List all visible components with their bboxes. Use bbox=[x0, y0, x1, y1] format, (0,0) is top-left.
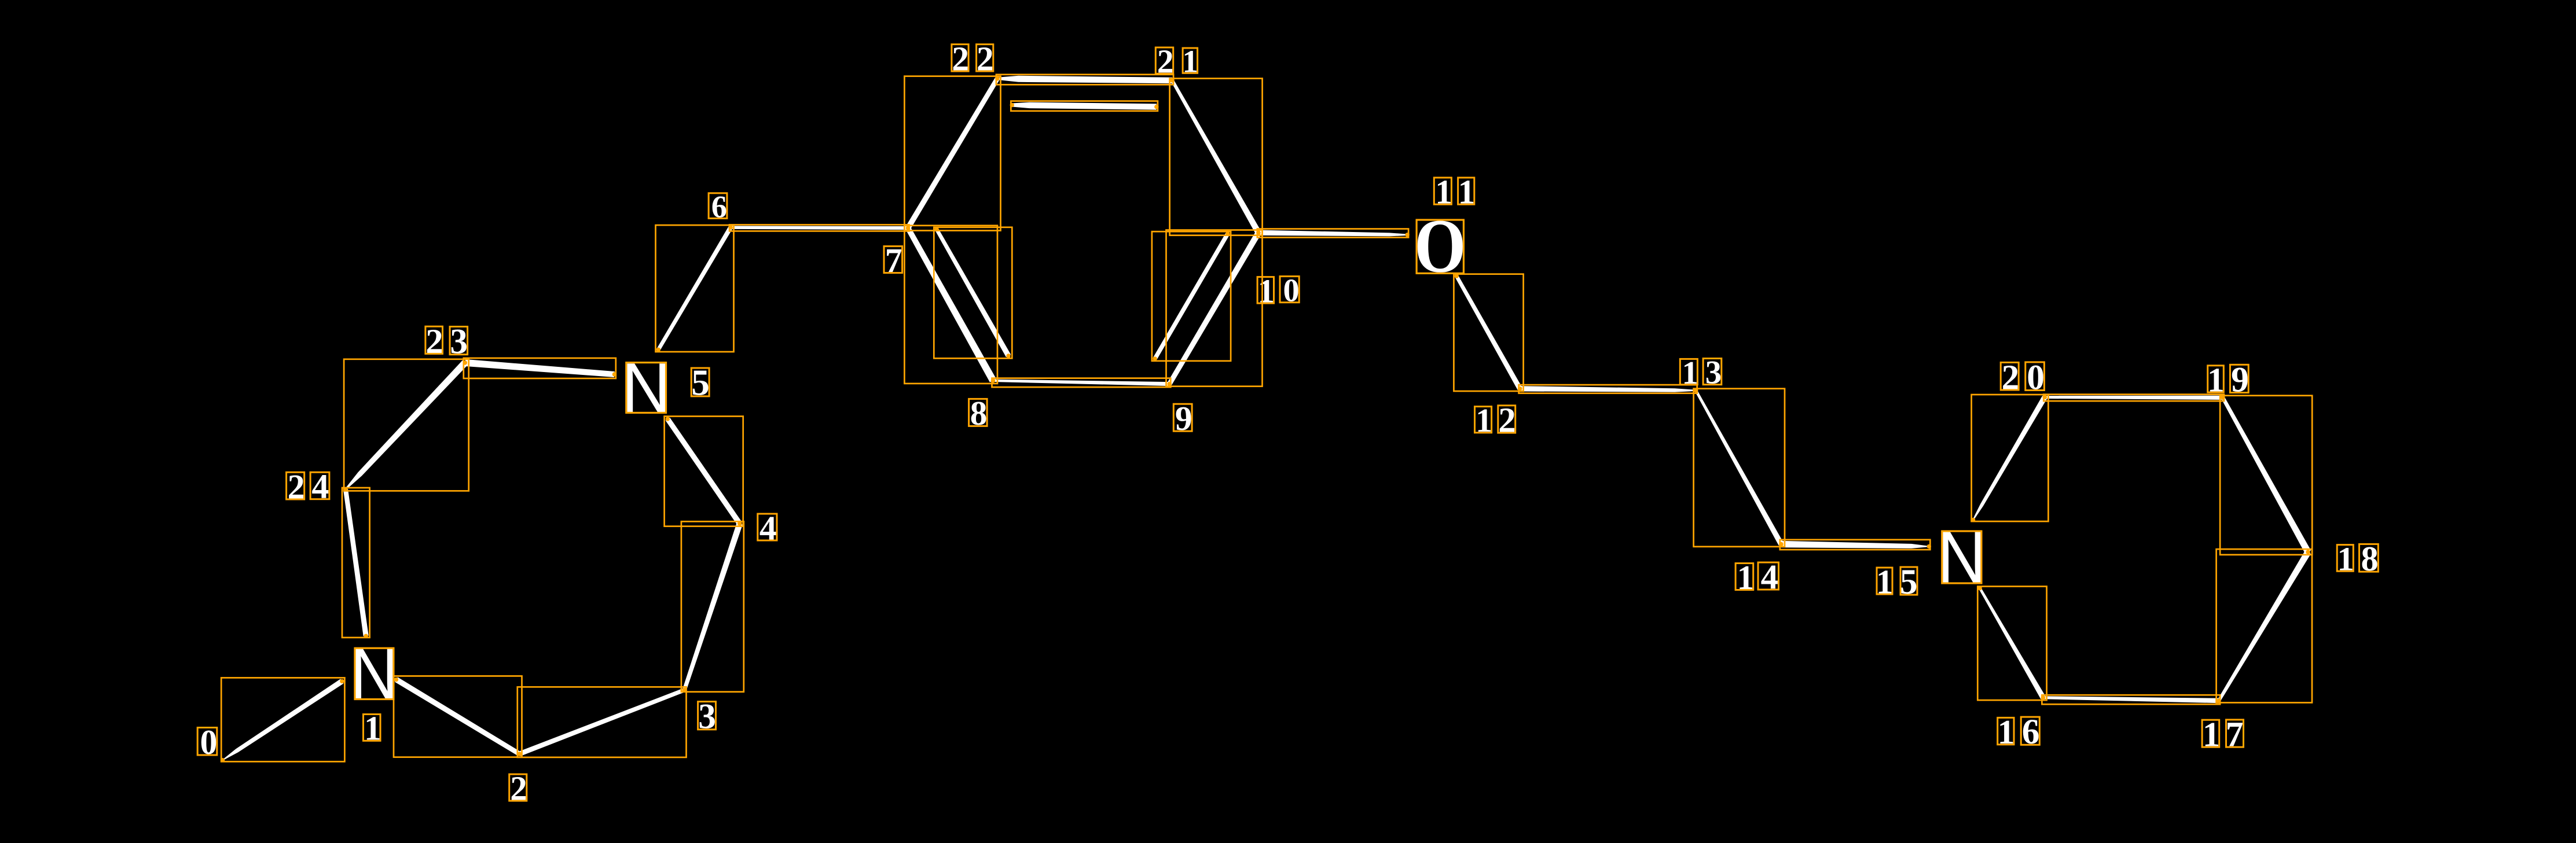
endpoint dots of bond 5-23 bbox=[612, 372, 617, 376]
atom 24 index label bbox=[285, 465, 329, 506]
endpoint dots of bond 13-14 bbox=[1694, 388, 1698, 392]
box of bond 7-8 main bbox=[904, 226, 997, 384]
bond 1-2 bbox=[395, 677, 521, 756]
svg-text:2: 2 bbox=[510, 770, 527, 808]
svg-text:3: 3 bbox=[450, 322, 468, 362]
box of atom 2 label digit 2 bbox=[509, 774, 527, 801]
bond 18-19 bbox=[2221, 397, 2311, 554]
bond 12-13 bbox=[1520, 386, 1696, 392]
box of bond 0-1 bbox=[221, 678, 344, 761]
svg-text:2: 2 bbox=[1498, 402, 1515, 440]
box of bond 16-17 bbox=[2042, 695, 2220, 704]
box of atom 22 label digit 2 bbox=[952, 45, 968, 72]
box of atom 19 label digit 1 bbox=[2208, 366, 2224, 392]
endpoint dots of bond 14-15 bbox=[1779, 542, 1783, 546]
box of atom 5 label digit 5 bbox=[691, 368, 709, 396]
atom 22 index label bbox=[950, 38, 994, 78]
box of atom 17 label digit 1 bbox=[2202, 720, 2219, 747]
endpoint dots of bond 4-5 bbox=[737, 521, 742, 525]
box of bond 10-21 bbox=[1170, 79, 1263, 235]
svg-text:1: 1 bbox=[364, 710, 381, 748]
bond 20-15 bbox=[1973, 396, 2047, 520]
endpoint dots of bond 10-11 bbox=[1256, 231, 1260, 235]
box of atom 15 label digit 1 bbox=[1877, 568, 1892, 594]
box of atom 1 label digit 1 bbox=[364, 715, 381, 741]
box of bond 23-24 bbox=[344, 359, 469, 491]
bond 17-18 bbox=[2218, 550, 2311, 701]
endpoint dots of bond 12-13 bbox=[1518, 386, 1522, 391]
bond 15-16 bbox=[1979, 588, 2045, 700]
endpoint dots of bond 21-22 main bbox=[1170, 78, 1174, 82]
box of bond 21-22 inner bbox=[1011, 101, 1158, 111]
box of atom 17 label digit 7 bbox=[2226, 720, 2244, 747]
box of bond 1-2 bbox=[394, 676, 522, 757]
box of atom 19 label digit 9 bbox=[2230, 365, 2248, 392]
box of bond 7-8 inner bbox=[934, 227, 1012, 359]
box of atom 6 label digit 6 bbox=[709, 193, 727, 219]
bond 9-10 main bbox=[1168, 231, 1261, 385]
atom 23 index label bbox=[424, 320, 468, 362]
box of atom 3 label digit 3 bbox=[698, 702, 716, 730]
box of atom 22 label digit 2 bbox=[977, 45, 993, 72]
atom N5 (ring nitrogen) bbox=[622, 349, 671, 427]
svg-text:7: 7 bbox=[2226, 715, 2244, 754]
box of atom 4 label digit 4 bbox=[758, 514, 777, 540]
endpoint dots of bond 20-15 bbox=[2043, 395, 2047, 399]
box of bond 13-14 bbox=[1694, 389, 1785, 547]
box of bond 8-9 bbox=[992, 378, 1171, 388]
box of atom N15 (piperidine nitrogen) bbox=[1942, 531, 1981, 583]
bond 11-12 bbox=[1455, 275, 1522, 390]
atom 8 index label bbox=[968, 392, 988, 432]
bond 21-22 inner bbox=[1012, 102, 1157, 110]
box of atom 24 label digit 4 bbox=[310, 472, 329, 499]
box of atom 24 label digit 2 bbox=[287, 472, 304, 499]
box of atom 14 label digit 1 bbox=[1735, 564, 1753, 590]
endpoint dots of bond 23-24 bbox=[463, 360, 467, 365]
atom 21 index label bbox=[1155, 41, 1198, 80]
box of atom 18 label digit 1 bbox=[2337, 545, 2353, 572]
box of atom 13 label digit 3 bbox=[1703, 359, 1722, 385]
box of atom 12 label digit 1 bbox=[1475, 407, 1492, 433]
atom 19 index label bbox=[2206, 358, 2249, 400]
box of bond 3-4 bbox=[681, 521, 744, 691]
box of bond 12-13 bbox=[1519, 385, 1697, 393]
box of atom 15 label digit 5 bbox=[1900, 567, 1917, 595]
bond 23-24 bbox=[345, 360, 468, 490]
box of bond 17-18 bbox=[2217, 549, 2312, 702]
box of bond 19-20 bbox=[2043, 395, 2224, 402]
bond 6-7 bbox=[731, 226, 908, 230]
svg-text:0: 0 bbox=[2027, 358, 2045, 397]
endpoint dots of bond 15-16 bbox=[1978, 586, 1982, 590]
endpoint dots of bond 9-10 inner bbox=[1153, 356, 1157, 360]
bond 14-15 bbox=[1781, 541, 1929, 548]
box of atom N1 (ring nitrogen) bbox=[355, 648, 394, 699]
box of atom 8 label digit 8 bbox=[969, 399, 988, 426]
atom 1 index label bbox=[362, 708, 381, 748]
atom 3 index label bbox=[696, 695, 716, 737]
bond 22-7 bbox=[905, 78, 999, 230]
bond 13-14 bbox=[1695, 390, 1784, 546]
endpoint dots of bond 7-8 main bbox=[906, 226, 910, 230]
endpoint dots of bond 24-1 bbox=[343, 487, 347, 491]
box of atom 21 label digit 1 bbox=[1183, 48, 1198, 73]
atom 10 index label bbox=[1256, 270, 1300, 310]
svg-text:8: 8 bbox=[2361, 540, 2379, 579]
endpoint dots of bond 2-3 bbox=[518, 752, 522, 756]
box of bond 6-7 bbox=[729, 224, 909, 231]
atom 13 index label bbox=[1680, 352, 1722, 391]
box of bond 15-16 bbox=[1977, 587, 2046, 701]
svg-text:9: 9 bbox=[2231, 360, 2249, 399]
box of bond 9-10 inner bbox=[1152, 231, 1231, 361]
box of bond 5-23 bbox=[464, 358, 616, 378]
svg-text:N: N bbox=[622, 349, 671, 427]
bond 2-3 bbox=[519, 688, 685, 756]
atom 14 index label bbox=[1735, 556, 1778, 597]
svg-text:2: 2 bbox=[2002, 358, 2020, 397]
endpoint dots of bond 10-21 bbox=[1256, 231, 1260, 235]
bond 10-11 bbox=[1258, 230, 1407, 237]
atom 12 index label bbox=[1474, 399, 1516, 440]
svg-text:3: 3 bbox=[698, 697, 716, 737]
bond 19-20 bbox=[2045, 396, 2223, 400]
atom 4 index label bbox=[758, 507, 777, 547]
box of atom 11 label digit 1 bbox=[1458, 178, 1474, 204]
bond 0-1 bbox=[222, 679, 343, 760]
svg-text:0: 0 bbox=[1283, 273, 1300, 309]
box of atom 16 label digit 1 bbox=[1998, 717, 2014, 744]
endpoint dots of bond 19-20 bbox=[2221, 396, 2225, 400]
endpoint dots of bond 21-22 inner bbox=[1154, 105, 1158, 109]
endpoint dots of bond 5-6 bbox=[656, 348, 660, 352]
endpoint dots of bond 3-4 bbox=[682, 688, 687, 692]
box of bond 11-12 bbox=[1454, 274, 1523, 391]
endpoint dots of bond 8-9 bbox=[991, 378, 995, 382]
box of bond 24-1 bbox=[342, 488, 370, 638]
svg-text:6: 6 bbox=[2022, 712, 2040, 752]
endpoint dots of bond 22-7 bbox=[995, 76, 999, 80]
box of bond 5-6 bbox=[656, 225, 734, 352]
atom 5 index label bbox=[689, 360, 710, 403]
svg-text:1: 1 bbox=[2203, 716, 2220, 754]
atom 16 index label bbox=[1995, 710, 2039, 752]
box of atom 16 label digit 6 bbox=[2021, 717, 2039, 745]
svg-text:N: N bbox=[350, 634, 398, 714]
endpoint dots of bond 17-18 bbox=[2217, 698, 2221, 702]
atom 7 index label bbox=[883, 239, 902, 279]
svg-text:1: 1 bbox=[1258, 273, 1275, 310]
box of atom 18 label digit 8 bbox=[2360, 544, 2379, 572]
box of atom 10 label digit 0 bbox=[1280, 277, 1299, 303]
endpoint dots of bond 1-2 bbox=[394, 678, 398, 682]
box of atom 23 label digit 2 bbox=[425, 326, 443, 354]
svg-text:1: 1 bbox=[2338, 540, 2354, 578]
box of atom 0 label digit 0 bbox=[197, 728, 217, 756]
bond 21-22 main bbox=[997, 76, 1172, 83]
endpoint dots of bond 16-17 bbox=[2041, 695, 2045, 700]
box of bond 4-5 bbox=[665, 417, 743, 527]
svg-text:1: 1 bbox=[1682, 355, 1698, 391]
box of atom 20 label digit 2 bbox=[2001, 362, 2019, 390]
box of atom 20 label digit 0 bbox=[2025, 362, 2045, 391]
box of bond 10-11 bbox=[1257, 229, 1408, 238]
atom 11 index label bbox=[1433, 171, 1475, 211]
box of bond 20-15 bbox=[1972, 395, 2049, 521]
svg-text:2: 2 bbox=[425, 322, 443, 361]
atom 2 index label bbox=[508, 768, 527, 808]
box of bond 9-10 main bbox=[1166, 230, 1263, 386]
bond 10-21 bbox=[1171, 80, 1261, 234]
atom 17 index label bbox=[2201, 713, 2244, 754]
endpoint dots of bond 11-12 bbox=[1455, 274, 1459, 278]
box of atom 12 label digit 2 bbox=[1498, 406, 1515, 433]
bond 7-8 inner bbox=[935, 229, 1011, 358]
atom 18 index label bbox=[2335, 538, 2378, 579]
bond 8-9 bbox=[993, 380, 1170, 386]
box of atom 7 label digit 7 bbox=[884, 246, 902, 273]
atom N15 (piperidine nitrogen) bbox=[1937, 516, 1986, 598]
box of atom 14 label digit 4 bbox=[1758, 562, 1779, 590]
box of atom 9 label digit 9 bbox=[1173, 404, 1192, 431]
bond 4-5 bbox=[666, 418, 742, 525]
box of bond 22-7 bbox=[904, 76, 1000, 231]
box of atom 13 label digit 1 bbox=[1680, 359, 1697, 384]
svg-text:4: 4 bbox=[1761, 558, 1778, 597]
atom 9 index label bbox=[1173, 397, 1192, 437]
bond 16-17 bbox=[2043, 696, 2219, 703]
box of bond 2-3 bbox=[518, 687, 687, 757]
atom 15 index label bbox=[1874, 560, 1918, 602]
bond 9-10 inner bbox=[1153, 233, 1230, 360]
bond 24-1 bbox=[343, 489, 369, 636]
bond 5-6 bbox=[657, 226, 733, 351]
atom 20 index label bbox=[1999, 356, 2045, 397]
box of bond 14-15 bbox=[1780, 540, 1931, 550]
box of atom 11 label digit 1 bbox=[1434, 178, 1451, 204]
atom 6 index label bbox=[710, 187, 727, 224]
atom 0 index label bbox=[198, 721, 217, 761]
box of atom 10 label digit 1 bbox=[1257, 277, 1274, 303]
box of atom 23 label digit 3 bbox=[450, 327, 468, 355]
bond 5-23 bbox=[465, 359, 615, 377]
box of bond 18-19 bbox=[2220, 396, 2312, 555]
bond 3-4 bbox=[682, 522, 743, 690]
endpoint dots of bond 0-1 bbox=[340, 679, 344, 683]
bond 7-8 main bbox=[905, 227, 996, 382]
box of atom N5 (ring nitrogen) bbox=[626, 363, 666, 413]
endpoint dots of bond 9-10 main bbox=[1168, 382, 1172, 386]
box of atom O11 (ether oxygen) bbox=[1417, 220, 1463, 273]
endpoint dots of bond 18-19 bbox=[2221, 396, 2225, 400]
svg-text:2: 2 bbox=[288, 467, 305, 506]
endpoint dots of bond 7-8 inner bbox=[934, 227, 938, 231]
endpoint dots of bond 6-7 bbox=[728, 225, 732, 229]
box of bond 21-22 main bbox=[996, 75, 1173, 85]
svg-text:5: 5 bbox=[1900, 562, 1918, 602]
box of atom 21 label digit 2 bbox=[1155, 47, 1173, 73]
atom N1 (ring nitrogen) bbox=[350, 634, 398, 714]
atom O11 (ether oxygen) bbox=[1414, 203, 1466, 289]
